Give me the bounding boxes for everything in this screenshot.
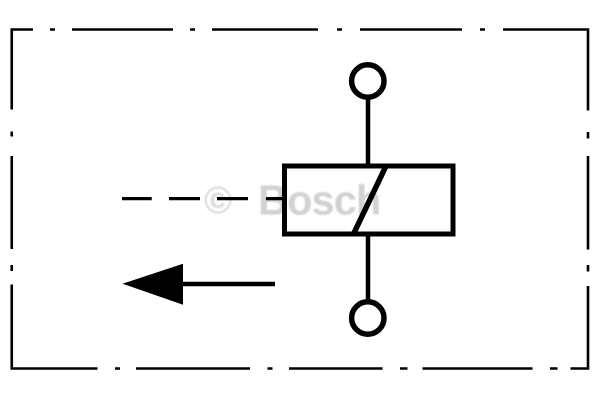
dashed control line (122, 197, 284, 200)
svg-text:©: © (204, 180, 232, 222)
wire (366, 98, 371, 166)
flow arrow shaft (180, 282, 275, 286)
terminal 1 (352, 65, 384, 97)
valve body U1 (285, 166, 454, 234)
wire (366, 234, 371, 301)
flow arrow head (123, 264, 184, 305)
terminal 2 (352, 302, 384, 334)
diagonal switch element (354, 166, 387, 234)
